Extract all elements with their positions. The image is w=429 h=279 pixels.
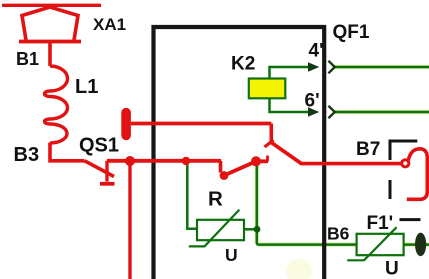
svg-text:XA1: XA1	[93, 15, 126, 34]
svg-text:U: U	[385, 259, 399, 279]
svg-text:K2: K2	[231, 54, 255, 75]
svg-text:F1': F1'	[367, 213, 394, 234]
svg-text:B1: B1	[16, 49, 39, 69]
svg-text:QS1: QS1	[79, 135, 119, 157]
svg-text:L1: L1	[75, 76, 98, 98]
svg-text:B6: B6	[327, 224, 350, 244]
svg-text:B7: B7	[356, 139, 380, 160]
svg-text:R: R	[208, 188, 223, 211]
svg-text:QF1: QF1	[333, 22, 370, 43]
svg-text:U: U	[225, 245, 238, 265]
svg-text:B3: B3	[14, 144, 40, 166]
svg-text:6': 6'	[305, 91, 320, 112]
svg-text:4': 4'	[309, 41, 324, 62]
